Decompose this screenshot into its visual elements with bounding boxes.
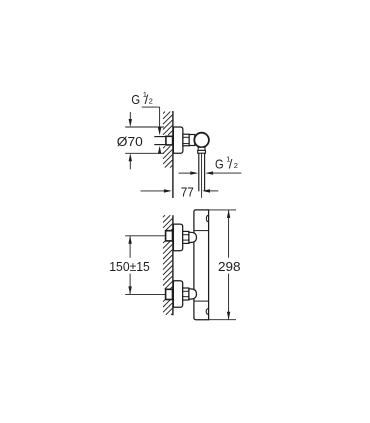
dimension D70 extension lines: [125, 126, 164, 128]
escutcheon top (bottom view): [173, 224, 182, 251]
dimension 298 line and arrows: [228, 211, 230, 258]
body joint line top: [194, 230, 209, 232]
dimension 77: [141, 190, 165, 192]
svg-text:2: 2: [234, 161, 238, 170]
wall hatching (bottom view): [163, 215, 172, 315]
escutcheon bottom (bottom view): [173, 281, 182, 308]
mixer body (bottom view): [194, 210, 209, 320]
G1/2 inlet square top (bottom view): [166, 231, 173, 241]
outlet collar below knob (top view): [198, 147, 205, 150]
body cap arc bottom: [206, 309, 208, 315]
shower outlet pipe (top view): [198, 153, 200, 191]
thermostat knob circle (top view): [194, 133, 209, 148]
body joint line bottom: [194, 300, 209, 302]
union cap bottom (bottom view): [189, 289, 197, 299]
leader arrow up at square bottom: [158, 146, 161, 154]
valve adapter (top view): [189, 135, 195, 146]
leader G1/2 top: [142, 106, 160, 108]
dimension 150+-15 line and arrows: [129, 236, 131, 258]
supply pipe stub behind wall (top view): [154, 136, 166, 138]
union nut top (bottom view): [183, 231, 189, 243]
svg-text:G: G: [131, 92, 140, 107]
dimension D70 arrows: [129, 112, 131, 120]
svg-text:2: 2: [149, 97, 153, 106]
dimension 298 extension lines: [209, 209, 236, 211]
svg-text:298: 298: [218, 259, 241, 274]
svg-text:Ø70: Ø70: [117, 134, 143, 149]
G1/2 inlet square bottom (bottom view): [166, 289, 173, 299]
union nut bottom (bottom view): [183, 288, 189, 300]
wall hatching (top view): [163, 112, 172, 168]
dimension 150+-15 extension lines: [125, 235, 165, 237]
escutcheon wall flange (top view): [173, 127, 183, 153]
body cap arc top: [206, 215, 208, 222]
G1/2 inlet square (top view): [166, 136, 173, 145]
svg-text:150±15: 150±15: [109, 259, 150, 274]
union nut (top view): [183, 134, 189, 146]
wall line (bottom view): [172, 215, 174, 315]
svg-text:G: G: [215, 157, 224, 172]
svg-text:77: 77: [181, 185, 194, 200]
union cap top (bottom view): [189, 232, 197, 242]
wall line (top view): [172, 111, 174, 198]
svg-text:/: /: [229, 157, 233, 172]
pipe centerline (top view): [201, 153, 203, 198]
dimension G1/2 right arrows: [179, 172, 191, 174]
